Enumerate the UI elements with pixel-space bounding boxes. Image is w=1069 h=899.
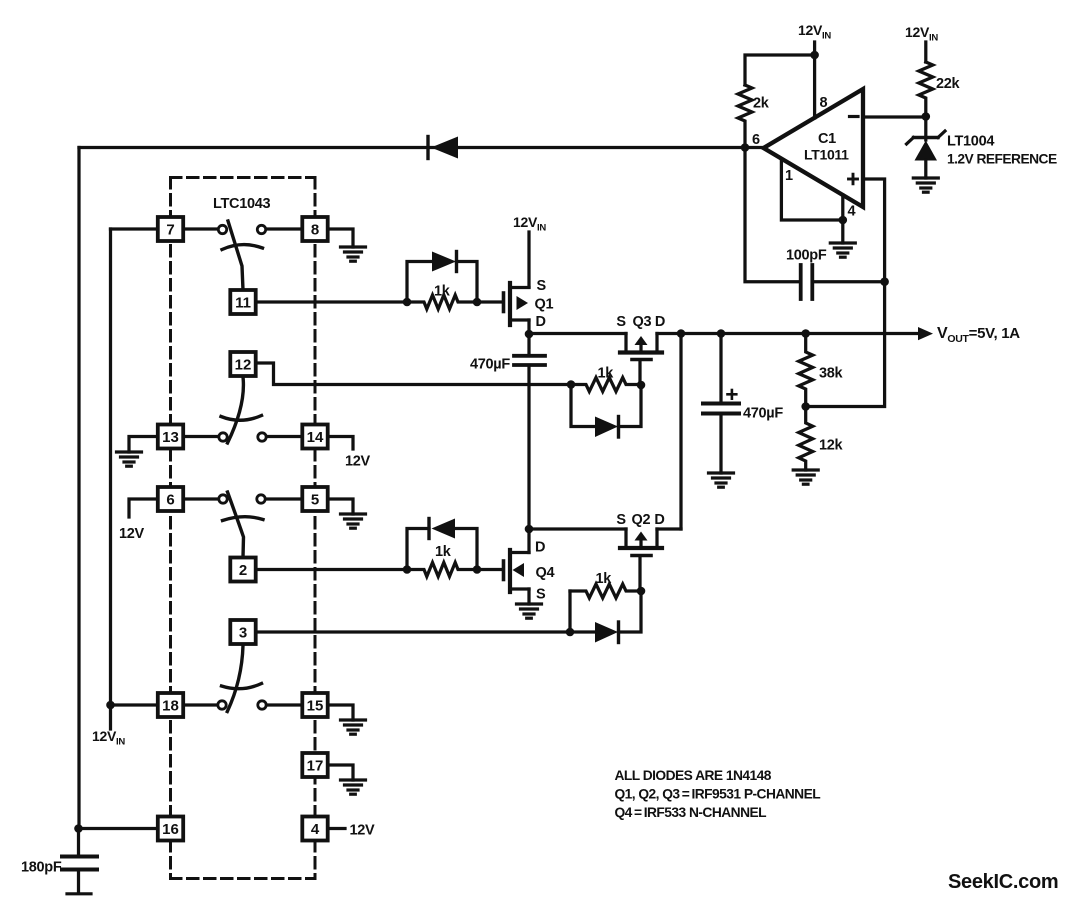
svg-text:5: 5 [311, 491, 319, 508]
wire Q2 gate lead [638, 557, 641, 591]
resistor R2 1k (Q3 gate) [571, 378, 641, 392]
svg-text:12V: 12V [350, 823, 376, 839]
svg-text:13: 13 [162, 429, 179, 446]
node Q3 gate net left [567, 380, 576, 389]
svg-text:470µF: 470µF [470, 357, 510, 373]
svg-text:Q4: Q4 [536, 565, 555, 581]
ground at pin5 [341, 514, 366, 528]
switch S4 arm [227, 646, 243, 712]
svg-text:LTC1043: LTC1043 [213, 196, 271, 212]
wire pin18 left lead [111, 703, 159, 706]
LTC1043 pin 17 box [302, 753, 327, 777]
wire pin13 to switch S2 [183, 435, 219, 438]
svg-text:16: 16 [162, 821, 179, 838]
wire pin3 to Q2 gate network [255, 630, 570, 633]
svg-text:D: D [655, 314, 665, 330]
LTC1043 pin 3 box [230, 620, 255, 644]
resistor R6 12k [799, 407, 813, 471]
node rail/output-cap [717, 329, 726, 338]
LTC1043 pin 6 box [158, 487, 183, 511]
wire left vertical bus x=79 (feedback to 180pF / pin16) [77, 148, 80, 829]
wire Q3 gate lead [638, 361, 641, 385]
svg-text:1k: 1k [434, 284, 451, 300]
resistor R8 22k [919, 62, 933, 117]
svg-text:Q4 = IRF533 N-CHANNEL: Q4 = IRF533 N-CHANNEL [615, 805, 767, 820]
ground at pin8 [341, 247, 366, 261]
svg-text:D: D [535, 540, 545, 556]
transistor Q3 symbol (IRF9531, horizontal) [620, 334, 662, 360]
wire pin4 right lead [328, 827, 345, 830]
node 100pF/+input [880, 277, 889, 286]
svg-text:8: 8 [311, 221, 319, 238]
ground at pin4 [830, 243, 855, 257]
wire 100pF left branch [745, 148, 799, 282]
wire 100pF right branch [814, 280, 885, 283]
LTC1043 pin 11 box [230, 290, 255, 314]
svg-text:2: 2 [239, 562, 247, 579]
wire Q2 net left vertical [568, 591, 571, 632]
svg-text:S: S [537, 278, 547, 294]
node 12Vin/pin8 [810, 51, 819, 60]
switch S3 right contact [257, 495, 265, 503]
capacitor C4 bottom lead [77, 872, 80, 892]
wire pin5 to ground [328, 499, 353, 514]
svg-text:LT1011: LT1011 [804, 147, 849, 163]
diode D5 on feedback rail (cathode left) [428, 137, 458, 159]
wire Q2 diode loop [570, 591, 641, 632]
svg-text:12V: 12V [345, 454, 371, 470]
capacitor 470uF #1 top lead [527, 334, 530, 354]
wire switch S3 to pin5 [266, 497, 304, 500]
diode D4 (across R4, cathode left) [432, 519, 456, 539]
transistor Q4 symbol [504, 550, 530, 592]
wire to zener [924, 117, 927, 141]
svg-text:Q2: Q2 [632, 512, 651, 528]
switch S2 actuation arc [221, 416, 262, 421]
svg-text:12V: 12V [119, 526, 145, 542]
svg-text:Q3: Q3 [633, 314, 652, 330]
zener Z1 LT1004 symbol [915, 141, 938, 161]
wire pin13 left to ground [129, 437, 158, 453]
switch S1 left contact [218, 225, 226, 233]
wire Q3 diode loop [571, 385, 641, 427]
node Q2 gate net right [637, 587, 646, 596]
wire divider midpoint to comparator + input [806, 179, 885, 407]
wire switch S2 to pin14 [267, 435, 304, 438]
ground at LT1004 [913, 178, 938, 192]
ground at Q4 source [517, 604, 542, 618]
ground stub below 180pF [67, 892, 91, 895]
LTC1043 pin 12 box [230, 352, 255, 376]
node 22k/LT1004/minus [922, 112, 931, 121]
svg-text:6: 6 [752, 132, 760, 148]
svg-text:S: S [616, 314, 626, 330]
wire Q1 diode loop [407, 262, 477, 303]
wire pin16 left lead to 180pF node [79, 827, 159, 830]
wire Q4 drain up [527, 529, 530, 553]
svg-text:7: 7 [166, 221, 174, 238]
svg-text:100pF: 100pF [786, 248, 827, 264]
svg-text:S: S [616, 512, 626, 528]
ground at pin15 [341, 720, 366, 734]
ground at pin13 [117, 452, 142, 466]
resistor R3 1k (Q2 gate) [570, 584, 641, 598]
svg-text:1k: 1k [435, 544, 452, 560]
wire main rail Q1-drain to Q3 [529, 332, 626, 335]
wire pin7 to switch S1 contact [183, 227, 218, 230]
resistor R4 1k (Q4 gate) [407, 563, 477, 577]
svg-text:38k: 38k [819, 366, 844, 382]
wire R1 to Q1 gate [477, 300, 502, 303]
LTC1043 pin 2 box [230, 558, 255, 582]
capacitor 470uF #2 plates [703, 402, 739, 406]
svg-text:14: 14 [307, 429, 324, 446]
wire pin7 left lead [111, 227, 159, 230]
ground at pin17 [341, 780, 366, 794]
wire 12Vin stub (comparator) [813, 42, 816, 55]
node Q4 gate net right [473, 565, 482, 574]
svg-text:LT1004: LT1004 [947, 134, 994, 150]
LTC1043 pin 13 box [158, 425, 183, 449]
plus input sign [849, 174, 858, 184]
wire pin14 to 12V stub [328, 437, 353, 450]
transistor Q2 symbol (IRF9531, horizontal) [620, 529, 662, 556]
node Q4 gate net left [403, 565, 412, 574]
ground at output cap [709, 473, 734, 487]
op-amp C1 LT1011 triangle [764, 89, 864, 207]
switch S1 actuation arc [222, 245, 263, 250]
node Q3 gate net right [637, 381, 646, 390]
wire second vertical bus x=110.5 (pin7 to 12Vin node) [109, 229, 112, 705]
capacitor 470uF #1 plates [514, 354, 545, 358]
switch S3 actuation arc [223, 517, 264, 521]
wire minus input to reference [863, 115, 926, 118]
capacitor 470uF #2 top lead [719, 334, 722, 402]
wire pin15 to ground [328, 705, 353, 720]
svg-text:17: 17 [307, 757, 324, 774]
svg-text:15: 15 [307, 697, 324, 714]
svg-text:SeekIC.com: SeekIC.com [948, 871, 1058, 893]
node Q1 drain [525, 330, 534, 339]
svg-text:Q1: Q1 [535, 297, 554, 313]
node pin1/pin4 [839, 216, 848, 225]
wire pin6 to switch S3 [183, 497, 219, 500]
wire Q2 drain to branch [657, 527, 681, 530]
svg-text:S: S [536, 587, 546, 603]
LTC1043 pin 4 box [302, 817, 327, 841]
switch S2 arm [228, 377, 244, 443]
wire pin8 supply lead [813, 55, 816, 118]
switch S3 left contact [219, 495, 227, 503]
wire zener to ground [924, 161, 927, 179]
svg-text:1.2V REFERENCE: 1.2V REFERENCE [947, 152, 1057, 167]
svg-text:Q1, Q2, Q3 = IRF9531 P-CHANNEL: Q1, Q2, Q3 = IRF9531 P-CHANNEL [615, 787, 821, 802]
node output/2k junction [741, 143, 750, 152]
wire 12Vin to Q1 source [527, 232, 530, 287]
diode D1 (across R1, cathode right) [432, 252, 456, 272]
svg-text:ALL DIODES ARE 1N4148: ALL DIODES ARE 1N4148 [615, 768, 772, 783]
svg-text:3: 3 [239, 624, 247, 641]
wire Q4 source to ground [527, 589, 530, 604]
capacitor 470uF #2 bottom lead [719, 416, 722, 474]
svg-text:18: 18 [162, 697, 179, 714]
node rail/38k [801, 329, 810, 338]
wire Q4 drain to Q2 [529, 527, 626, 530]
capacitor C4 180pF lead [77, 829, 80, 856]
node Q1 gate net left [403, 298, 412, 307]
LTC1043 pin 16 box [158, 817, 183, 841]
resistor R5 38k [799, 334, 813, 407]
wire R4 to Q4 gate [477, 568, 502, 571]
svg-text:1k: 1k [596, 571, 613, 587]
node divider midpoint [801, 402, 810, 411]
svg-text:11: 11 [235, 294, 251, 311]
svg-text:C1: C1 [818, 131, 836, 147]
svg-text:2k: 2k [753, 96, 770, 112]
node Q2 gate net left (on pin3 wire) [566, 628, 575, 637]
svg-text:4: 4 [311, 821, 320, 838]
wire 12Vin stub [109, 705, 112, 729]
wire comparator-output feedback top rail y=147.5 [79, 146, 764, 149]
wire pin11 to Q1 gate network [255, 300, 407, 303]
switch S4 right contact [258, 701, 266, 709]
ground at 12k [793, 470, 818, 484]
svg-text:12k: 12k [819, 438, 844, 454]
wire Q2 branch vertical x=681 [679, 334, 682, 530]
svg-text:180pF: 180pF [21, 860, 62, 876]
svg-text:D: D [654, 512, 664, 528]
wire pin4 to ground [841, 195, 844, 243]
node Q4 drain junction [525, 525, 534, 534]
switch S4 left contact [218, 701, 226, 709]
diode D2 (Q3 gate, cathode right) [595, 417, 618, 438]
switch S2 right contact [258, 433, 266, 441]
wire pin2 to Q4 gate network [255, 568, 407, 571]
svg-text:D: D [536, 314, 546, 330]
switch S1 arm [228, 221, 243, 290]
wire pin12 to Q3 gate network [255, 363, 571, 385]
LTC1043 pin 14 box [302, 425, 327, 449]
wire pin6 left to 12V stub [129, 499, 158, 517]
diode D3 (Q2 gate, cathode right) [595, 622, 618, 643]
capacitor C4 180pF plates [62, 855, 97, 859]
wire Q4 diode loop [407, 529, 477, 570]
svg-text:22k: 22k [936, 76, 961, 92]
wire 12Vin stub (22k) [924, 42, 927, 62]
wire Q1 drain to rail [527, 320, 530, 334]
switch S1 right contact [257, 225, 265, 233]
LTC1043 pin 15 box [302, 693, 327, 717]
transistor Q1 symbol [504, 283, 530, 325]
minus input sign [850, 115, 859, 118]
svg-text:1k: 1k [598, 366, 615, 382]
node rail/Q2-branch [677, 329, 686, 338]
LTC1043 pin 8 box [302, 217, 327, 241]
node 12Vin junction [106, 701, 115, 710]
wire switch S4 to pin15 [267, 703, 304, 706]
LTC1043 pin 7 box [158, 217, 183, 241]
LTC1043 pin 18 box [158, 693, 183, 717]
switch S4 actuation arc [222, 684, 262, 689]
wire switch S1 right contact to pin8 [266, 227, 303, 230]
wire pin8 to ground [328, 229, 353, 247]
switch S3 arm [228, 492, 244, 558]
capacitor 470uF #1 bottom lead [527, 367, 530, 530]
resistor R1 1k (Q1 gate) [407, 295, 477, 309]
svg-text:12: 12 [235, 356, 252, 373]
IC U2 LTC1043 dashed outline [171, 178, 316, 879]
capacitor C2 100pF plates [799, 265, 803, 299]
node 180pF junction [74, 824, 83, 833]
wire pin18 to switch S4 [183, 703, 218, 706]
svg-text:1: 1 [785, 168, 793, 184]
wire pin1 strap [781, 159, 842, 220]
svg-text:4: 4 [848, 204, 856, 220]
svg-text:6: 6 [166, 491, 174, 508]
output arrow head [918, 327, 933, 340]
node Q1 gate net right [473, 298, 482, 307]
switch S2 left contact [219, 433, 227, 441]
wire main rail Q3 to output arrow [657, 332, 919, 335]
svg-text:8: 8 [820, 95, 828, 111]
wire pin17 to ground [328, 765, 353, 780]
LTC1043 pin 5 box [302, 487, 327, 511]
wire 12Vin to 2k [745, 55, 815, 85]
resistor R7 2k [738, 85, 752, 148]
capacitor 470uF #2 plus sign [728, 393, 737, 396]
svg-text:470µF: 470µF [743, 406, 783, 422]
